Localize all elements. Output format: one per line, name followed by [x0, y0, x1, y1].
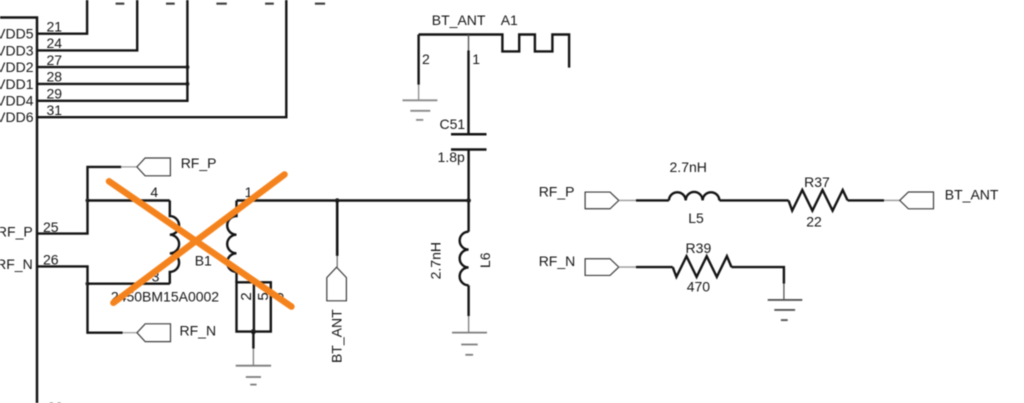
ground (balun pins 2/5/6): [236, 349, 271, 385]
wire R39 to ground: [732, 267, 784, 284]
svg-text:RF_P: RF_P: [539, 184, 575, 200]
resistor R39: [673, 256, 732, 277]
wire stub to RF_N flag: [123, 332, 137, 334]
resistor R37: [789, 190, 848, 211]
wire pin 31 with riser: [37, 0, 286, 117]
inductor L6: [460, 232, 469, 286]
wire to L5: [636, 199, 669, 201]
svg-text:VDD3: VDD3: [0, 42, 34, 58]
svg-text:25: 25: [43, 219, 59, 235]
wire to balun pin 3: [88, 283, 170, 285]
svg-text:VDD6: VDD6: [0, 109, 34, 125]
wire BT_ANT stub: [336, 201, 339, 256]
junction balun ground: [251, 329, 256, 334]
wire stub to RF_P flag: [121, 166, 137, 168]
svg-text:VDD1: VDD1: [0, 76, 34, 92]
svg-text:2.7nH: 2.7nH: [670, 159, 707, 175]
svg-text:R37: R37: [804, 174, 830, 190]
ground (antenna pin 2): [403, 85, 438, 120]
net flag RF_N (right, pointing right): [585, 259, 619, 276]
inductor L5: [669, 192, 720, 200]
wire balun ground leg: [252, 332, 254, 349]
junction pin28/riser: [185, 82, 189, 86]
balun B1 left winding (pins 4-3): [170, 201, 179, 284]
wire L6 bottom: [467, 285, 469, 316]
junction pin26 branch to balun pin 3: [85, 282, 89, 286]
ground (L6): [452, 316, 487, 355]
gray stub from flag: [619, 266, 636, 268]
svg-text:22: 22: [806, 213, 822, 229]
svg-text:32: 32: [48, 399, 64, 403]
svg-text:RF_N: RF_N: [0, 256, 33, 272]
svg-text:B1: B1: [195, 253, 212, 269]
IC U1 box (left edge, partially off-screen): [0, 18, 37, 403]
svg-text:RF_P: RF_P: [0, 223, 33, 239]
svg-text:1.8p: 1.8p: [438, 149, 465, 165]
wire pin 21 with riser: [37, 0, 87, 34]
thin stub to flag apex: [336, 256, 338, 267]
junction pin27/riser: [185, 65, 189, 69]
wire to balun pin 4: [88, 199, 170, 201]
svg-text:21: 21: [47, 18, 63, 34]
wire L5 to R37: [719, 199, 788, 201]
net flag RF_P (left section): [137, 158, 171, 176]
wire pin 24 with riser: [37, 0, 137, 50]
wire antenna feed + antenna A1 meander: [419, 35, 569, 68]
svg-text:RF_P: RF_P: [181, 155, 217, 171]
wire antenna pin1 leg to C51: [467, 51, 469, 135]
svg-text:470: 470: [687, 278, 711, 294]
svg-text:24: 24: [47, 35, 63, 51]
orange X stroke B: [113, 175, 284, 303]
balun B1 right winding (pin 1): [227, 201, 236, 283]
svg-text:BT_ANT: BT_ANT: [945, 187, 999, 203]
svg-text:31: 31: [47, 102, 63, 118]
net flag BT_ANT (up-pointing): [327, 267, 347, 301]
svg-text:VDD4: VDD4: [0, 93, 34, 109]
svg-text:VDD5: VDD5: [0, 26, 34, 42]
wire pin 25 RF_P up to connector: [37, 167, 121, 234]
svg-text:RF_N: RF_N: [180, 322, 217, 338]
ground (R39): [768, 284, 803, 321]
junction node C51/L6: [466, 198, 471, 203]
wire pin 28: [37, 83, 187, 85]
svg-text:1: 1: [472, 51, 480, 67]
net flag BT_ANT (right, pointing left): [900, 192, 934, 209]
wire to R39: [636, 266, 673, 268]
svg-text:BT_ANT: BT_ANT: [432, 12, 486, 28]
wire R37 to BT_ANT flag: [848, 199, 884, 201]
junction BT_ANT stub: [335, 198, 340, 203]
svg-text:C51: C51: [440, 116, 466, 132]
net flag RF_P (right, pointing right): [585, 192, 619, 209]
svg-text:26: 26: [43, 252, 59, 268]
wire balun pin1 to node: [237, 199, 469, 201]
svg-text:BT_ANT: BT_ANT: [329, 309, 345, 363]
svg-text:2: 2: [238, 292, 255, 300]
junction pin25 branch to balun pin 4: [85, 198, 89, 202]
orange X stroke A: [109, 181, 291, 306]
top dash marks (cut-off elements above): [116, 3, 326, 5]
gray stub to flag: [884, 199, 900, 201]
balun pins 2/5/6 box: [237, 282, 271, 331]
capacitor C51: [451, 134, 487, 149]
svg-text:27: 27: [47, 52, 63, 68]
gray stub from flag: [619, 199, 636, 201]
wire antenna pin1 stub (thin): [468, 35, 470, 51]
wire C51 bottom to node to L6: [467, 150, 469, 232]
wire pin 29 with riser: [37, 0, 187, 101]
svg-text:R39: R39: [686, 240, 712, 256]
wire pin 27: [37, 66, 187, 68]
svg-text:2: 2: [422, 51, 430, 67]
svg-text:L6: L6: [477, 252, 493, 268]
svg-text:2.7nH: 2.7nH: [428, 242, 444, 279]
svg-text:29: 29: [47, 86, 63, 102]
svg-text:4: 4: [150, 184, 158, 200]
wire pin 26 RF_N down to connector: [37, 266, 123, 332]
svg-text:L5: L5: [688, 210, 704, 226]
wire antenna pin 2 leg: [417, 35, 419, 85]
net flag RF_N (left section): [137, 324, 171, 342]
svg-text:28: 28: [47, 69, 63, 85]
svg-text:A1: A1: [501, 12, 518, 28]
svg-text:VDD2: VDD2: [0, 59, 34, 75]
svg-text:RF_N: RF_N: [539, 253, 576, 269]
